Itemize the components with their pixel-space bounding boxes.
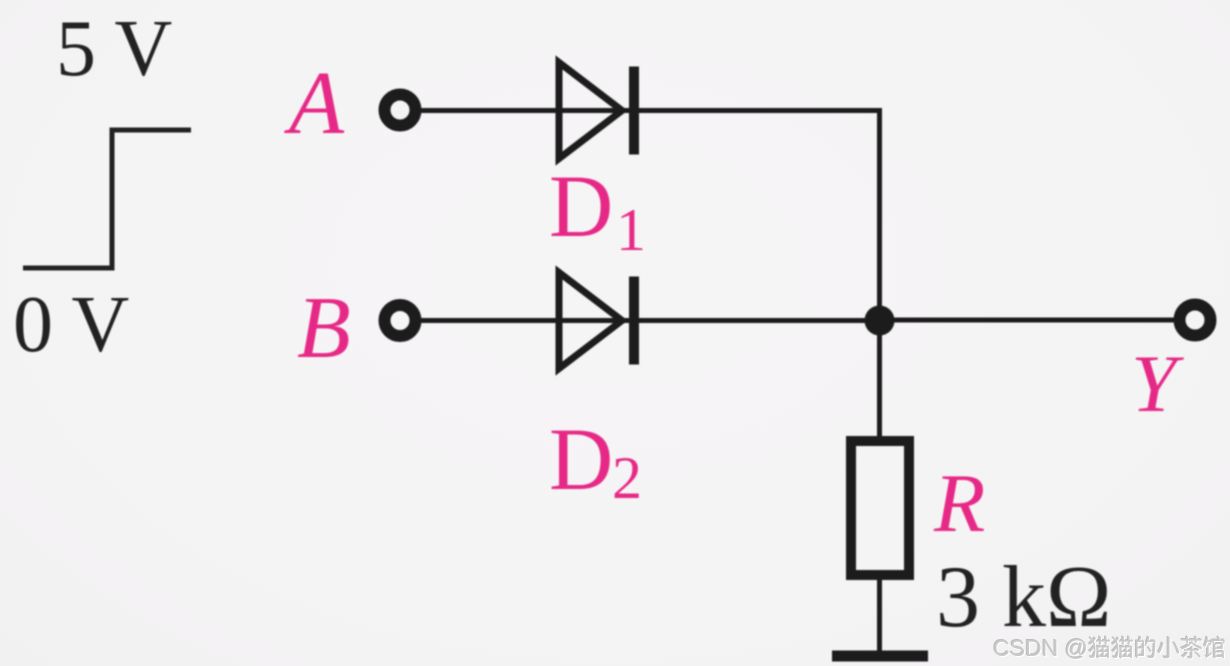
junction node	[865, 306, 895, 336]
wire B horizontal	[421, 318, 880, 323]
terminal Y	[1180, 305, 1211, 336]
wire resistor to ground	[877, 578, 882, 654]
svg-text:1: 1	[616, 197, 646, 263]
svg-text:0 V: 0 V	[13, 281, 129, 369]
wire junction to resistor	[877, 320, 882, 440]
terminal A	[385, 95, 416, 126]
wire junction to Y	[880, 318, 1176, 323]
svg-text:D: D	[549, 411, 613, 509]
svg-text:2: 2	[612, 445, 642, 511]
svg-text:B: B	[297, 280, 351, 377]
waveform step symbol	[23, 130, 191, 268]
wire A horizontal	[421, 108, 882, 113]
diode D1	[559, 63, 634, 159]
svg-text:5 V: 5 V	[56, 5, 172, 93]
svg-text:Y: Y	[1131, 338, 1184, 429]
svg-text:3 kΩ: 3 kΩ	[936, 549, 1111, 646]
watermark	[993, 637, 1226, 660]
svg-text:R: R	[933, 457, 985, 550]
svg-text:D: D	[549, 158, 613, 256]
diode D2	[559, 273, 634, 369]
wire A vertical drop	[877, 108, 882, 321]
resistor R	[851, 441, 909, 575]
terminal B	[385, 305, 416, 336]
svg-text:A: A	[284, 54, 345, 153]
ground	[832, 651, 928, 662]
